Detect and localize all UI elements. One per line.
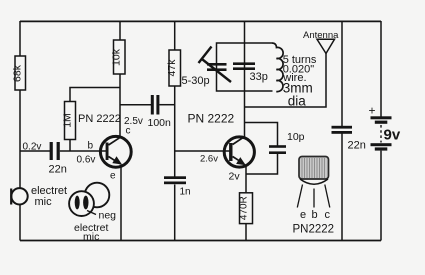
svg-text:22n: 22n <box>348 140 366 152</box>
wire Q2 collector vertical <box>244 21 246 137</box>
svg-text:e: e <box>110 171 116 182</box>
svg-text:470R: 470R <box>238 196 249 220</box>
transistor Q1 PN2222 <box>100 136 131 167</box>
svg-text:b: b <box>88 141 94 152</box>
capacitor C 100n <box>148 95 172 129</box>
trimmer capacitor 5-30p <box>182 47 232 88</box>
svg-text:2.5v: 2.5v <box>124 116 143 127</box>
svg-text:0.2v: 0.2v <box>23 142 42 153</box>
svg-text:Antenna: Antenna <box>303 30 339 41</box>
svg-text:68k: 68k <box>12 64 24 82</box>
svg-text:mic: mic <box>35 196 53 208</box>
svg-text:c: c <box>126 126 131 137</box>
capacitor C 10p <box>269 131 305 154</box>
wire battery branch <box>380 21 382 241</box>
svg-text:+: + <box>369 104 376 118</box>
capacitor C 22n decoupling <box>332 126 366 152</box>
svg-text:10p: 10p <box>287 131 305 143</box>
wire mic to 22n input <box>20 150 50 152</box>
inductor L1 coil <box>272 43 283 92</box>
resistor 10k <box>111 40 125 74</box>
capacitor C 33p <box>233 62 268 83</box>
wire 10k branch / Q1 collector <box>119 21 121 136</box>
svg-text:100n: 100n <box>148 117 172 129</box>
svg-text:2.6v: 2.6v <box>200 154 218 165</box>
microphone symbol (electret mic) <box>11 188 28 204</box>
svg-text:c: c <box>325 209 331 221</box>
wire antenna feed <box>245 54 327 108</box>
capacitor C 1n <box>164 176 191 197</box>
transistor Q2 PN2222 <box>224 136 254 167</box>
wire 470R to ground <box>245 224 247 241</box>
wire tank circuit frame <box>217 43 273 91</box>
resistor 68k <box>12 56 26 90</box>
wire bottom ground rail <box>20 240 381 242</box>
svg-text:1n: 1n <box>180 187 191 198</box>
resistor 1M <box>61 102 75 140</box>
svg-text:PN2222: PN2222 <box>293 224 335 236</box>
electret mic capsule drawing <box>69 183 109 216</box>
wire 1M feedback connection <box>70 88 120 152</box>
battery 9v <box>371 116 392 150</box>
svg-text:47k: 47k <box>166 59 178 77</box>
svg-text:0.6v: 0.6v <box>77 155 96 166</box>
svg-text:5-30p: 5-30p <box>182 75 210 87</box>
svg-text:33p: 33p <box>250 71 268 83</box>
svg-text:PN 2222: PN 2222 <box>188 112 235 126</box>
wire left vertical (68k / mic branch) <box>19 21 21 241</box>
svg-text:mic: mic <box>83 231 99 243</box>
svg-text:2v: 2v <box>229 171 241 183</box>
wire Q2 base <box>175 150 230 152</box>
label electret mic (capsule) <box>74 222 109 243</box>
wire collector to 100n <box>120 104 152 106</box>
wire 22n to Q1 base <box>60 150 106 152</box>
svg-text:9v: 9v <box>384 127 401 144</box>
svg-text:10k: 10k <box>111 48 123 66</box>
svg-text:b: b <box>312 209 318 221</box>
wire 100n to 47k/base node <box>159 104 174 106</box>
label electret mic (left) <box>31 185 67 208</box>
antenna symbol <box>317 39 335 53</box>
transistor package drawing PN2222 <box>297 157 330 208</box>
wire 47k branch <box>174 21 176 241</box>
resistor 470R <box>238 193 252 224</box>
svg-text:e: e <box>300 209 306 221</box>
resistor 47k <box>166 50 181 86</box>
svg-text:PN 2222: PN 2222 <box>78 113 121 125</box>
capacitor C 22n input <box>49 142 67 176</box>
wire top supply rail <box>20 20 381 22</box>
wire 22n decoupling branch <box>341 21 343 241</box>
wire 10p feedback branch <box>245 123 278 175</box>
svg-text:22n: 22n <box>49 164 67 176</box>
wire Q2 emitter to 470R <box>245 166 247 194</box>
svg-text:1M: 1M <box>61 113 73 128</box>
svg-text:neg: neg <box>99 210 117 222</box>
wire Q1 emitter to ground <box>120 165 122 241</box>
